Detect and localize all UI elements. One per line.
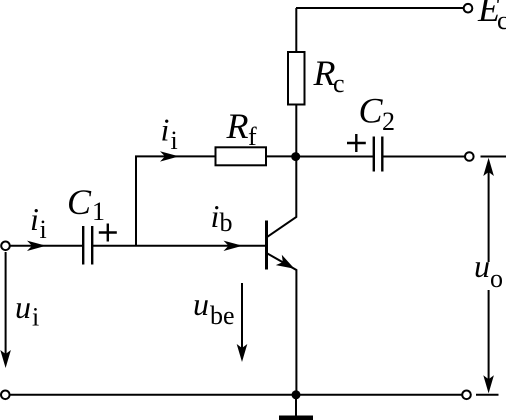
terminal bottom left circle — [1, 391, 10, 400]
arrow voltage ube — [237, 283, 248, 362]
wire node to C2 — [296, 156, 373, 158]
resistor Rf — [216, 147, 267, 165]
wire Rf to node — [266, 155, 296, 157]
transistor Q1 base bar — [265, 221, 268, 270]
svg-text:1: 1 — [92, 197, 105, 226]
arrow input current ii — [27, 241, 46, 251]
svg-text:2: 2 — [382, 107, 395, 136]
label Rf — [226, 106, 258, 151]
label ii input — [30, 201, 47, 244]
wire top rail — [296, 7, 464, 9]
node emitter bottom junction — [292, 390, 301, 399]
svg-text:i: i — [211, 198, 220, 234]
label C1 — [67, 182, 105, 226]
svg-text:be: be — [210, 301, 235, 330]
capacitor C1 — [83, 226, 92, 265]
svg-text:i: i — [161, 112, 170, 148]
label C2 — [359, 91, 396, 137]
label ube — [193, 286, 235, 330]
label uo — [474, 248, 503, 293]
label Rc — [313, 53, 345, 98]
label ib — [211, 198, 233, 237]
svg-text:i: i — [40, 215, 47, 244]
arrow feedback current ii — [160, 151, 179, 161]
terminal output top circle — [465, 152, 474, 161]
svg-text:i: i — [32, 303, 39, 332]
wire C1 to base — [92, 245, 265, 247]
wire bottom rail — [10, 394, 463, 396]
wire C2 to output terminal — [382, 156, 465, 158]
wire feedback branch — [136, 156, 216, 245]
svg-text:u: u — [15, 289, 31, 325]
svg-text:R: R — [226, 106, 249, 146]
wire collector vertical lower — [267, 105, 297, 238]
svg-text:f: f — [248, 122, 257, 151]
arrow voltage uo double-headed — [483, 158, 494, 394]
wire input to C1 — [10, 245, 83, 247]
arrow voltage ui — [0, 252, 11, 368]
resistor Rc — [288, 52, 305, 105]
ground — [279, 416, 313, 420]
svg-text:i: i — [30, 201, 39, 237]
terminal bottom right circle — [462, 391, 471, 400]
label Ec — [477, 0, 506, 35]
wire output reference tick top — [481, 156, 506, 158]
wire ground stub — [295, 395, 297, 416]
svg-text:u: u — [474, 248, 490, 284]
label plus C1 — [99, 224, 117, 242]
node collector junction — [291, 152, 300, 161]
svg-text:b: b — [220, 208, 233, 237]
terminal Ec circle — [464, 4, 473, 13]
svg-text:c: c — [497, 6, 506, 35]
svg-text:c: c — [333, 69, 345, 98]
label ii feedback — [161, 112, 178, 156]
wire bottom reference tick — [476, 394, 499, 396]
svg-text:C: C — [67, 182, 92, 222]
arrow emitter — [276, 255, 295, 269]
label plus C2 — [347, 134, 366, 152]
svg-text:C: C — [359, 91, 384, 131]
wire collector vertical upper — [295, 8, 297, 53]
svg-text:u: u — [193, 286, 209, 322]
arrow base current ib — [224, 241, 243, 251]
terminal input circle — [1, 242, 10, 251]
svg-text:i: i — [171, 126, 178, 155]
capacitor C2 — [374, 137, 383, 172]
label ui — [15, 289, 39, 332]
transistor Q1 emitter — [267, 253, 297, 394]
svg-text:o: o — [490, 264, 503, 293]
